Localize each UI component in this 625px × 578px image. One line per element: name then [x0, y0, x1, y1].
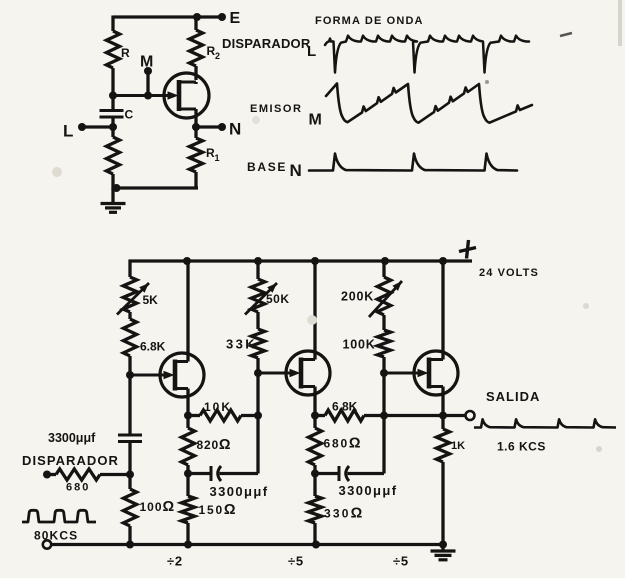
svg-text:10K: 10K — [204, 400, 232, 414]
svg-text:3300μμf: 3300μμf — [339, 483, 398, 498]
svg-text:÷2: ÷2 — [167, 554, 183, 569]
svg-text:1.6 KCS: 1.6 KCS — [497, 440, 546, 454]
svg-text:FORMA DE ONDA: FORMA DE ONDA — [315, 15, 424, 27]
svg-text:M: M — [140, 54, 153, 71]
svg-text:80KCS: 80KCS — [34, 529, 78, 543]
svg-text:820Ω: 820Ω — [197, 437, 232, 453]
svg-text:50K: 50K — [266, 292, 290, 306]
svg-text:÷5: ÷5 — [288, 554, 304, 569]
svg-text:DISPARADOR: DISPARADOR — [22, 453, 119, 468]
svg-text:1: 1 — [215, 153, 220, 163]
svg-text:200K: 200K — [341, 290, 374, 304]
svg-text:N: N — [229, 120, 241, 139]
svg-text:M: M — [309, 112, 322, 129]
svg-text:SALIDA: SALIDA — [486, 389, 540, 404]
svg-text:R: R — [121, 46, 130, 60]
svg-text:L: L — [63, 122, 73, 141]
svg-text:2: 2 — [215, 51, 220, 61]
svg-text:5K: 5K — [143, 293, 159, 307]
svg-text:N: N — [290, 161, 302, 180]
svg-text:150Ω: 150Ω — [199, 502, 238, 518]
svg-text:100K: 100K — [343, 338, 376, 352]
svg-text:100Ω: 100Ω — [140, 499, 176, 515]
svg-text:E: E — [230, 10, 241, 27]
svg-text:÷5: ÷5 — [393, 554, 409, 569]
svg-text:L: L — [307, 43, 316, 60]
svg-text:6.8K: 6.8K — [332, 400, 358, 414]
svg-text:33K: 33K — [226, 337, 257, 352]
svg-text:680: 680 — [66, 482, 90, 494]
svg-text:EMISOR: EMISOR — [250, 103, 302, 115]
svg-text:680Ω: 680Ω — [324, 436, 363, 452]
svg-text:3300μμf: 3300μμf — [210, 484, 269, 499]
svg-text:3300μμf: 3300μμf — [48, 431, 96, 445]
svg-text:330Ω: 330Ω — [324, 506, 364, 522]
svg-text:DISPARADOR: DISPARADOR — [222, 36, 311, 51]
svg-text:24 VOLTS: 24 VOLTS — [479, 267, 539, 279]
svg-text:C: C — [125, 108, 134, 122]
svg-text:1K: 1K — [451, 440, 465, 452]
svg-text:6.8K: 6.8K — [140, 340, 166, 354]
svg-text:BASE: BASE — [247, 160, 287, 174]
